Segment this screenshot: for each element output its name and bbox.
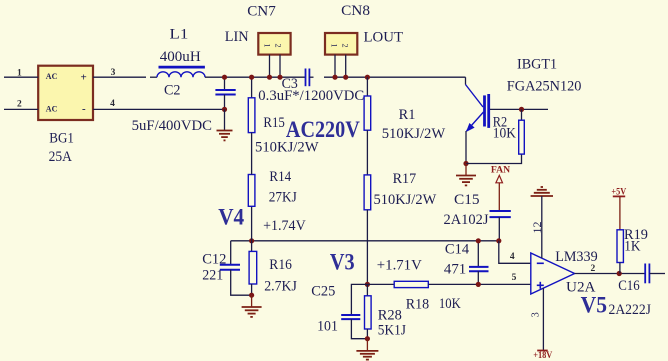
wire R17 to node V3 [366,210,368,285]
svg-text:CN7: CN7 [247,3,276,19]
node: output junction [617,271,622,276]
capacitor C12 [202,241,251,295]
svg-text:R17: R17 [393,171,417,187]
power +5V [611,186,626,230]
wire node V4 horizontal [231,240,499,242]
ground below R16 [242,307,262,317]
node: R1 top junction [365,75,370,80]
node: R28 bottom junction [365,336,370,341]
inductor L1 [157,27,205,78]
svg-text:C25: C25 [311,283,335,299]
wire pin 4 of BG1 to C2 [93,99,225,109]
svg-text:510KJ/2W: 510KJ/2W [374,192,437,208]
node: C15 bottom junction [496,238,501,243]
svg-text:LOUT: LOUT [364,29,404,45]
svg-text:1: 1 [329,44,338,48]
resistor R1 [364,77,445,142]
svg-text:C12: C12 [202,252,226,268]
svg-text:LIN: LIN [225,29,249,45]
svg-text:AC: AC [46,72,58,81]
ground below R28 [356,351,378,360]
svg-text:C15: C15 [454,191,480,208]
capacitor C15 [444,191,511,241]
wire R28 to ground [366,339,368,351]
node: C14 bottom junction [476,282,481,287]
svg-text:R14: R14 [269,168,291,185]
wire R1 to R17 [366,130,368,175]
wire node V4 to op-amp pin 4 [499,241,531,263]
wire CN8 pin 1 [334,55,336,78]
node V3 junction [365,282,370,287]
svg-text:1K: 1K [624,238,641,255]
svg-text:L1: L1 [170,27,189,43]
svg-text:2A222J: 2A222J [609,301,652,318]
op-amp U2A LM339 [531,248,598,295]
wire emitter to ground [465,164,467,176]
node: emitter junction [463,161,468,166]
ground below IGBT emitter [456,176,476,186]
svg-text:BG1: BG1 [49,130,74,147]
svg-text:5uF/400VDC: 5uF/400VDC [132,118,212,134]
svg-text:AC220V: AC220V [286,117,360,143]
svg-text:2.7KJ: 2.7KJ [264,278,297,295]
power port FAN [491,164,510,211]
resistor R16 [249,241,297,295]
resistor R17 [364,171,436,210]
connector CN7 [225,3,291,54]
svg-text:FGA25N120: FGA25N120 [507,78,582,94]
bridge rectifier BG1 [38,66,93,166]
wire pin 3 of BG1 to L1 [93,68,157,78]
wire emitter to R2 bottom [466,154,522,163]
wire IGBT gate [490,108,548,110]
svg-text:5: 5 [512,273,517,283]
svg-text:4: 4 [110,99,115,109]
node: CN7 pin 2 junction [277,75,282,80]
svg-text:LM339: LM339 [555,248,597,264]
svg-text:4: 4 [510,252,515,262]
svg-text:3: 3 [111,68,116,78]
wire pin 12 [530,196,544,258]
capacitor C3 [258,69,364,104]
svg-text:V5: V5 [581,292,607,318]
svg-text:2A102J: 2A102J [444,212,489,228]
wire op-amp output pin 2 [575,264,646,274]
resistor R14 [248,133,297,241]
svg-text:10K: 10K [493,125,517,142]
svg-text:400uH: 400uH [160,49,201,65]
wire CN7 pin 1 [269,55,271,78]
node: C14 top junction [476,238,481,243]
svg-text:R16: R16 [269,256,292,273]
wire L1 to C3 (top bus) [205,76,306,78]
transistor IBGT1 [466,56,582,132]
svg-text:2: 2 [274,44,283,48]
resistor R18 [367,281,530,312]
svg-text:C2: C2 [164,82,180,98]
svg-text:R1: R1 [399,107,416,123]
svg-text:-: - [82,103,86,115]
svg-text:+5V: +5V [611,186,626,197]
resistor R2 [493,109,525,154]
node: C2 bottom junction [222,107,227,112]
svg-text:R18: R18 [406,296,429,313]
power +18V [533,349,553,360]
svg-text:V3: V3 [330,249,355,274]
ground below C2 [217,131,233,141]
ground above pin 12 (inverted) [531,187,553,196]
svg-text:10K: 10K [439,296,461,312]
svg-text:FAN: FAN [491,164,510,175]
wire R16 to ground [251,295,253,306]
svg-text:2: 2 [17,100,22,110]
node: gate / R2 top junction [519,107,524,112]
svg-text:1: 1 [263,44,272,48]
node: CN8 pin 1 junction [332,75,337,80]
node: R15 top junction [249,75,254,80]
svg-text:0.3uF*/1200VDC: 0.3uF*/1200VDC [258,88,364,104]
svg-text:IBGT1: IBGT1 [517,56,557,72]
wire pin 1 of BG1 [4,69,38,79]
svg-text:25A: 25A [49,148,73,165]
wire C2 to ground [224,109,226,130]
wire C3 to IGBT (top bus right) [324,76,466,78]
svg-text:510KJ/2W: 510KJ/2W [382,126,446,142]
svg-text:C16: C16 [618,278,639,294]
node: CN7 pin 1 junction [267,75,272,80]
svg-text:5K1J: 5K1J [378,322,407,339]
resistor R19 [617,227,648,274]
svg-text:12: 12 [530,222,544,234]
svg-text:3: 3 [531,312,542,317]
svg-text:AC: AC [46,104,58,113]
node: C2 top junction [222,75,227,80]
capacitor C16 [609,264,666,319]
svg-text:27KJ: 27KJ [269,189,298,206]
svg-text:+1.71V: +1.71V [377,257,422,273]
node: R16 bottom junction [249,293,254,298]
node: CN8 pin 2 junction [343,75,348,80]
svg-text:101: 101 [317,318,338,335]
resistor R15 [248,77,318,155]
wire IGBT emitter down [465,131,467,164]
svg-text:2: 2 [591,264,596,274]
svg-text:+: + [81,72,87,84]
svg-text:2: 2 [340,44,349,48]
svg-text:+18V: +18V [533,349,553,360]
svg-text:R15: R15 [263,115,284,131]
resistor R28 [365,284,407,338]
svg-text:C14: C14 [445,241,470,257]
svg-text:+1.74V: +1.74V [263,218,306,235]
svg-text:V4: V4 [218,204,244,230]
capacitor C2 [132,77,236,134]
capacitor C14 [444,241,489,285]
wire pin 3 to +18V [531,288,544,350]
wire CN8 pin 2 [345,55,347,78]
svg-text:471: 471 [444,261,466,277]
connector CN8 [325,2,403,54]
wire pin 2 of BG1 [4,100,38,110]
node V4 junction [249,238,254,243]
svg-text:221: 221 [202,267,223,284]
capacitor C25 [311,283,367,338]
wire CN7 pin 2 [279,55,281,78]
svg-text:CN8: CN8 [341,2,370,19]
svg-text:1: 1 [17,69,22,79]
